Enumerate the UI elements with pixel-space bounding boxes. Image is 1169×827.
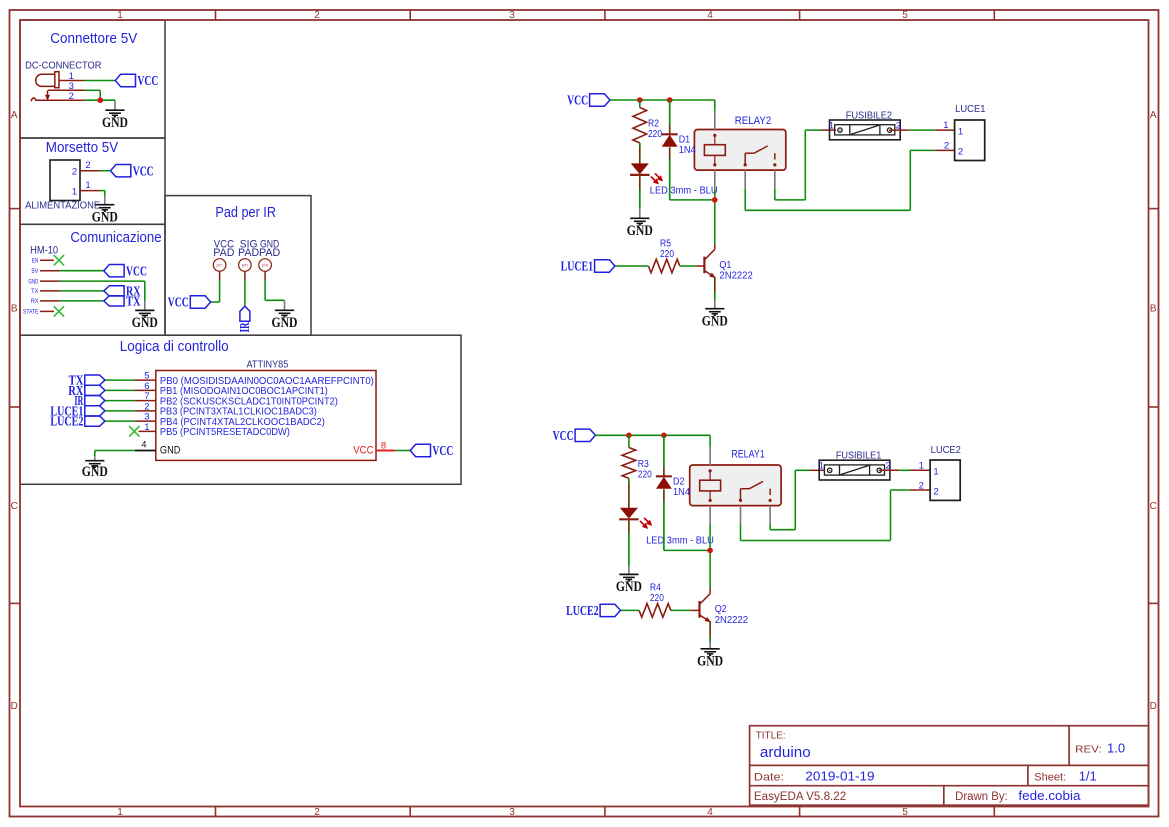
svg-text:PAD: PAD — [213, 247, 235, 259]
svg-text:RELAY2: RELAY2 — [735, 115, 771, 127]
svg-text:1N4: 1N4 — [679, 145, 697, 156]
svg-text:GND: GND — [697, 653, 723, 669]
svg-text:A: A — [1150, 110, 1157, 121]
svg-text:4: 4 — [707, 807, 713, 818]
svg-text:220: 220 — [650, 593, 664, 604]
svg-text:1: 1 — [117, 10, 123, 21]
svg-text:FUSIBILE2: FUSIBILE2 — [846, 110, 893, 122]
svg-text:D: D — [1150, 701, 1157, 712]
svg-text:2: 2 — [69, 91, 74, 102]
svg-text:HM-10: HM-10 — [30, 244, 58, 256]
svg-text:pin: pin — [262, 263, 269, 269]
svg-text:GND: GND — [627, 223, 653, 239]
svg-text:5: 5 — [902, 10, 908, 21]
svg-text:R4: R4 — [650, 582, 661, 593]
svg-text:Drawn By:: Drawn By: — [955, 791, 1008, 803]
svg-text:220: 220 — [660, 249, 674, 260]
svg-text:1: 1 — [829, 121, 834, 132]
svg-text:R2: R2 — [648, 118, 659, 129]
svg-text:2N2222: 2N2222 — [719, 270, 752, 281]
svg-text:1: 1 — [933, 467, 938, 478]
svg-text:B: B — [1150, 304, 1157, 315]
svg-text:VCC: VCC — [126, 264, 147, 279]
svg-text:4: 4 — [707, 10, 713, 21]
svg-text:PB5 (PCINT5RESETADC0DW): PB5 (PCINT5RESETADC0DW) — [160, 427, 290, 438]
svg-text:GND: GND — [82, 464, 108, 480]
svg-text:220: 220 — [648, 129, 662, 140]
svg-text:3: 3 — [509, 10, 515, 21]
svg-text:2: 2 — [314, 807, 320, 818]
svg-text:Connettore 5V: Connettore 5V — [50, 31, 137, 47]
svg-text:GND: GND — [616, 579, 642, 595]
svg-text:PAD: PAD — [259, 247, 281, 259]
svg-text:R5: R5 — [660, 239, 671, 250]
svg-text:IR: IR — [238, 322, 253, 333]
svg-text:VCC: VCC — [432, 444, 453, 459]
svg-text:VCC: VCC — [137, 74, 158, 89]
svg-text:1/1: 1/1 — [1079, 768, 1097, 783]
svg-text:pin: pin — [242, 263, 249, 269]
svg-text:D1: D1 — [679, 134, 691, 145]
svg-text:STATE: STATE — [23, 309, 39, 316]
svg-text:Date:: Date: — [754, 771, 784, 783]
svg-text:2: 2 — [85, 160, 90, 171]
svg-text:LED 3mm - BLU: LED 3mm - BLU — [650, 186, 718, 197]
svg-text:PAD: PAD — [238, 247, 260, 259]
svg-text:LUCE1: LUCE1 — [955, 104, 986, 115]
svg-text:Q1: Q1 — [719, 260, 731, 271]
svg-text:D: D — [11, 701, 18, 712]
svg-text:FUSIBILE1: FUSIBILE1 — [836, 450, 882, 462]
svg-text:GND: GND — [102, 115, 128, 131]
svg-text:2: 2 — [958, 147, 963, 158]
svg-text:RX: RX — [31, 298, 39, 305]
svg-text:3: 3 — [509, 807, 515, 818]
svg-text:VCC: VCC — [353, 445, 373, 457]
svg-text:C: C — [11, 501, 18, 512]
svg-text:2: 2 — [919, 480, 924, 491]
svg-text:2N2222: 2N2222 — [715, 615, 748, 626]
svg-text:ATTINY85: ATTINY85 — [247, 358, 289, 370]
svg-text:Logica di controllo: Logica di controllo — [120, 339, 229, 355]
svg-text:EasyEDA V5.8.22: EasyEDA V5.8.22 — [754, 791, 846, 803]
svg-text:LUCE2: LUCE2 — [931, 445, 962, 456]
svg-text:LUCE2: LUCE2 — [566, 604, 599, 619]
svg-text:arduino: arduino — [760, 745, 811, 761]
svg-text:2: 2 — [314, 10, 320, 21]
svg-text:A: A — [11, 110, 18, 121]
svg-text:1: 1 — [943, 120, 948, 131]
svg-text:TX: TX — [126, 295, 141, 310]
svg-text:1: 1 — [819, 461, 824, 472]
svg-text:VCC: VCC — [567, 94, 588, 109]
svg-text:fede.cobia: fede.cobia — [1018, 788, 1081, 803]
svg-text:Comunicazione: Comunicazione — [70, 230, 161, 246]
svg-text:D2: D2 — [673, 476, 685, 487]
svg-text:TX: TX — [31, 288, 39, 295]
svg-text:LUCE2: LUCE2 — [50, 415, 83, 430]
svg-text:VCC: VCC — [133, 164, 154, 179]
svg-text:RELAY1: RELAY1 — [731, 449, 764, 461]
svg-text:pin: pin — [216, 263, 223, 269]
svg-text:Morsetto 5V: Morsetto 5V — [46, 140, 119, 156]
svg-text:ALIMENTAZIONE: ALIMENTAZIONE — [25, 201, 100, 212]
svg-text:GND: GND — [132, 315, 158, 331]
svg-text:GND: GND — [160, 445, 181, 457]
svg-text:1: 1 — [919, 460, 924, 471]
svg-text:R3: R3 — [638, 459, 649, 470]
svg-text:DC-CONNECTOR: DC-CONNECTOR — [25, 61, 101, 72]
svg-text:GND: GND — [92, 209, 118, 225]
svg-text:Sheet:: Sheet: — [1034, 771, 1066, 783]
svg-text:5: 5 — [902, 807, 908, 818]
svg-text:1N4: 1N4 — [673, 487, 691, 498]
svg-text:GND: GND — [28, 278, 38, 285]
svg-text:REV:: REV: — [1075, 744, 1102, 756]
svg-text:220: 220 — [638, 470, 652, 481]
svg-text:B: B — [11, 304, 18, 315]
svg-text:1.0: 1.0 — [1107, 741, 1125, 756]
svg-text:4: 4 — [141, 439, 146, 450]
svg-text:1: 1 — [85, 180, 90, 191]
svg-text:2: 2 — [933, 487, 938, 498]
svg-text:LUCE1: LUCE1 — [561, 260, 594, 275]
svg-text:VCC: VCC — [168, 296, 189, 311]
svg-text:GND: GND — [272, 315, 298, 331]
svg-text:1: 1 — [117, 807, 123, 818]
svg-text:C: C — [1150, 501, 1157, 512]
svg-text:2: 2 — [944, 141, 949, 152]
svg-text:VCC: VCC — [553, 429, 574, 444]
svg-text:1: 1 — [72, 186, 77, 197]
svg-text:2: 2 — [72, 167, 77, 178]
svg-text:5V: 5V — [31, 268, 39, 275]
svg-text:TITLE:: TITLE: — [756, 730, 786, 742]
svg-text:Pad per IR: Pad per IR — [215, 205, 276, 221]
svg-text:Q2: Q2 — [715, 604, 727, 615]
svg-text:EN: EN — [32, 258, 39, 265]
svg-text:LED 3mm - BLU: LED 3mm - BLU — [646, 536, 714, 547]
svg-text:8: 8 — [381, 441, 386, 452]
svg-text:GND: GND — [702, 313, 728, 329]
svg-text:2019-01-19: 2019-01-19 — [805, 768, 874, 783]
svg-text:1: 1 — [958, 126, 963, 137]
